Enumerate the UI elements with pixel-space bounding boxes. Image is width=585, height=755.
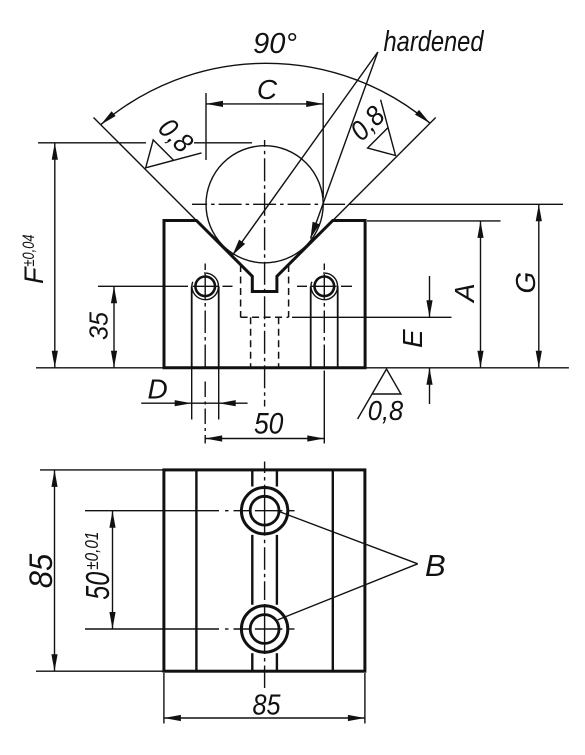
svg-text:85: 85 bbox=[253, 690, 282, 722]
leader arrowhead left bbox=[233, 240, 246, 256]
right hole center extension for 50 dim bbox=[323, 371, 325, 444]
leader arrowhead right bbox=[311, 222, 320, 239]
hidden counterbore wide lines bbox=[241, 265, 289, 368]
C left arrowhead bbox=[206, 101, 223, 107]
B leader to lower hole bbox=[278, 564, 418, 620]
upper hole horizontal center line / 50 ext bbox=[85, 510, 219, 512]
35 top arrowhead bbox=[111, 286, 117, 303]
50 tol bottom arrowhead bbox=[109, 612, 115, 629]
35 dimension line bbox=[113, 286, 115, 368]
svg-text:E: E bbox=[397, 329, 428, 348]
F bottom arrowhead bbox=[52, 351, 58, 368]
85 bottom arrowhead bbox=[51, 654, 57, 671]
50 left arrowhead bbox=[205, 435, 222, 441]
F top extension line (cylinder top plane) bbox=[38, 142, 146, 144]
85 bottom dimension line bbox=[164, 717, 365, 719]
85 left dimension line bbox=[54, 470, 56, 671]
E top arrowhead bbox=[426, 300, 432, 317]
chamfer edge lines bbox=[195, 470, 197, 671]
roughness symbol on right V-face bbox=[368, 100, 396, 156]
50 tol dimension line bbox=[112, 511, 114, 629]
vertical center line (bottom view) bbox=[264, 462, 266, 474]
svg-text:C: C bbox=[257, 74, 278, 105]
hardened leader line to right V-face bbox=[311, 52, 378, 239]
hardened leader line to left V-face bbox=[233, 52, 378, 255]
50 dimension line (front) bbox=[205, 438, 324, 440]
lower counterbored hole bbox=[241, 606, 287, 652]
svg-text:hardened: hardened bbox=[384, 26, 485, 58]
A top arrowhead bbox=[477, 221, 483, 238]
lower hole horizontal center line / 50 ext bbox=[85, 628, 219, 630]
svg-text:0,8: 0,8 bbox=[368, 395, 404, 426]
roughness symbol on bottom face bbox=[358, 369, 401, 419]
90-degree arc right arrowhead bbox=[415, 110, 430, 123]
G bottom arrowhead bbox=[536, 351, 542, 368]
bottom edge extension line bbox=[36, 367, 569, 369]
right hole vertical center line bbox=[323, 264, 325, 271]
G dimension line bbox=[538, 204, 540, 367]
slot edge lines bbox=[251, 470, 253, 487]
A extension line bbox=[367, 220, 501, 222]
G top arrowhead bbox=[536, 204, 542, 221]
svg-text:A: A bbox=[449, 283, 480, 304]
A dimension line bbox=[480, 221, 482, 368]
left V-face extension line bbox=[94, 118, 197, 221]
85 bottom right arrowhead bbox=[348, 715, 365, 721]
svg-text:D: D bbox=[148, 374, 168, 405]
front view: V-block outline bbox=[164, 221, 365, 368]
left hole vertical center line bbox=[204, 264, 206, 271]
hole horizontal center line segments bbox=[193, 285, 218, 287]
right V-face extension line bbox=[333, 118, 436, 221]
bottom view: square outline bbox=[164, 470, 365, 671]
B leader to upper hole bbox=[279, 512, 418, 564]
A bottom arrowhead bbox=[477, 351, 483, 368]
50 right arrowhead bbox=[307, 435, 324, 441]
hidden hole narrow lines bbox=[250, 317, 252, 368]
svg-text:G: G bbox=[510, 272, 541, 294]
gauge cylinder circle bbox=[206, 146, 323, 263]
slot side lines under left hole bbox=[191, 286, 193, 368]
F dimension line bbox=[54, 143, 56, 368]
85 bottom extension lines bbox=[163, 673, 165, 724]
slot side lines under right hole bbox=[310, 286, 312, 368]
horizontal center line through cylinder bbox=[192, 203, 207, 205]
85 top arrowhead bbox=[51, 470, 57, 487]
svg-text:85: 85 bbox=[23, 554, 59, 589]
90-degree arc left arrowhead bbox=[101, 110, 430, 125]
G upper extension line bbox=[349, 203, 564, 205]
svg-text:50: 50 bbox=[254, 408, 284, 441]
D extension lines bbox=[191, 368, 193, 420]
svg-text:90°: 90° bbox=[253, 28, 297, 60]
85 left extension lines bbox=[40, 469, 164, 471]
90-degree dimension arc bbox=[101, 63, 430, 124]
roughness symbol on left V-face bbox=[146, 140, 202, 168]
vertical center line (front, main axis) bbox=[264, 140, 266, 147]
E bottom arrowhead bbox=[426, 368, 432, 385]
C right arrowhead bbox=[306, 101, 323, 107]
C dimension line bbox=[206, 103, 323, 105]
D dimension line with outside arrows bbox=[141, 402, 247, 404]
35 bottom arrowhead bbox=[111, 351, 117, 368]
E dimension lines with outside arrows bbox=[429, 276, 431, 317]
85 bottom left arrowhead bbox=[164, 715, 181, 721]
50 tol top arrowhead bbox=[109, 511, 115, 528]
left tapped hole bbox=[195, 277, 215, 297]
D left arrowhead bbox=[175, 400, 192, 406]
upper counterbored hole bbox=[241, 488, 287, 534]
35 extension line bbox=[98, 285, 188, 287]
right tapped hole bbox=[315, 277, 335, 297]
F top arrowhead bbox=[52, 143, 58, 160]
svg-text:35: 35 bbox=[84, 311, 114, 340]
C extension lines bbox=[205, 93, 207, 160]
E upper extension line bbox=[292, 316, 452, 318]
svg-text:B: B bbox=[425, 548, 446, 583]
D right arrowhead bbox=[219, 400, 236, 406]
